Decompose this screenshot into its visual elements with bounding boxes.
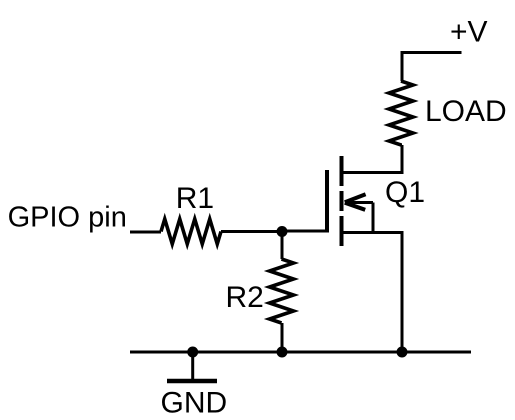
wire Q1 source to ground rail bbox=[342, 233, 403, 353]
svg-text:GND: GND bbox=[161, 387, 228, 420]
wire node A to R2 top lead bbox=[281, 232, 284, 260]
junction dot Q1 source at ground rail bbox=[397, 347, 408, 358]
wire R1 to node A bbox=[221, 230, 282, 233]
wire LOAD top to +V terminal bbox=[402, 53, 462, 82]
transistor Q1 gate bar bbox=[325, 170, 329, 233]
wire Q1 body to source bbox=[372, 203, 375, 233]
resistor LOAD bbox=[389, 81, 413, 145]
ground symbol bar bbox=[167, 379, 217, 384]
resistor R2 bbox=[270, 259, 294, 323]
svg-text:R1: R1 bbox=[176, 182, 214, 215]
transistor Q1 channel bar (body, middle) bbox=[340, 191, 344, 211]
junction node A (R1/R2/gate) bbox=[277, 226, 288, 237]
ground rail wire bbox=[130, 351, 471, 354]
ground symbol stub bbox=[191, 352, 194, 379]
junction dot ground tap bbox=[187, 347, 198, 358]
junction dot R2 at ground rail bbox=[277, 347, 288, 358]
svg-text:Q1: Q1 bbox=[385, 176, 425, 209]
resistor R1 bbox=[161, 219, 221, 244]
transistor Q1 body arrow (points into channel) bbox=[345, 194, 373, 210]
transistor Q1 channel bar (drain side) bbox=[340, 156, 344, 186]
svg-text:R2: R2 bbox=[226, 281, 264, 314]
wire R2 bottom lead to ground rail bbox=[281, 323, 284, 352]
svg-text:GPIO pin: GPIO pin bbox=[8, 202, 127, 234]
wire node A to Q1 gate bbox=[282, 230, 327, 233]
transistor Q1 channel bar (source side) bbox=[340, 216, 344, 246]
svg-text:LOAD: LOAD bbox=[425, 95, 507, 128]
wire Q1 drain to LOAD bottom bbox=[342, 145, 403, 173]
wire GPIO pin to R1 left lead bbox=[130, 231, 161, 234]
svg-text:+V: +V bbox=[450, 16, 488, 49]
